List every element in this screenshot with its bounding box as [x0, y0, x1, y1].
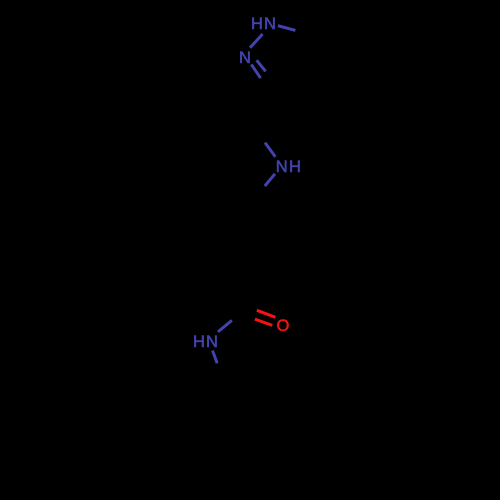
bond C6-N7 (blue half, upper) — [265, 143, 275, 157]
svg-text:N: N — [206, 333, 218, 351]
bond N1-N2 — [250, 34, 263, 48]
atom label N7 (secondary amine N-H) — [276, 158, 301, 176]
svg-text:N: N — [264, 15, 276, 33]
bond N1-C5 (blue half) — [278, 26, 295, 31]
double bond C11=O12 upper line (red half) — [257, 310, 276, 317]
svg-text:N: N — [276, 158, 288, 176]
double bond N2=C3 inner line (blue half) — [257, 60, 266, 71]
svg-text:H: H — [193, 333, 205, 351]
double bond N2=C3 outer line (blue half) — [251, 64, 260, 78]
svg-text:H: H — [289, 158, 301, 176]
atom label N13 (amide H-N) — [193, 333, 218, 351]
bond N13-C11 (blue half) — [218, 320, 232, 332]
atom label N1 (pyrazole H-N) — [251, 15, 276, 33]
svg-text:N: N — [239, 49, 251, 67]
bond N13-C14 (blue half) — [213, 351, 218, 364]
svg-text:O: O — [276, 317, 289, 335]
svg-text:H: H — [251, 15, 263, 33]
double bond C11=O12 lower line (red half) — [255, 319, 272, 325]
bond N7-C8 (blue half, lower) — [265, 174, 275, 186]
